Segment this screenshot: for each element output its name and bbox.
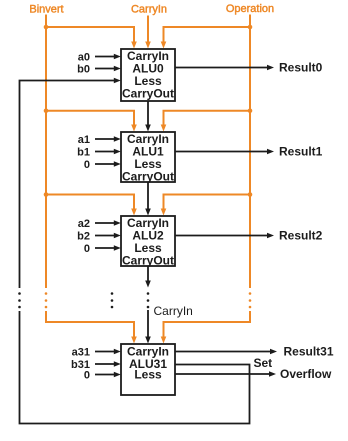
svg-text:Operation: Operation (226, 3, 274, 15)
svg-text:CarryOut: CarryOut (122, 87, 174, 101)
svg-text:a0: a0 (78, 52, 90, 64)
svg-text:0: 0 (84, 370, 90, 382)
svg-text:Binvert: Binvert (29, 4, 63, 16)
svg-text:0: 0 (84, 243, 90, 255)
svg-text:CarryIn: CarryIn (131, 4, 167, 16)
svg-text:a2: a2 (78, 218, 90, 230)
svg-text:Result0: Result0 (279, 61, 323, 75)
svg-text:Result1: Result1 (279, 145, 323, 159)
svg-text:Less: Less (134, 368, 162, 382)
svg-text:CarryIn: CarryIn (154, 304, 193, 318)
svg-text:CarryOut: CarryOut (122, 254, 174, 268)
svg-text:b1: b1 (77, 147, 90, 159)
svg-text:Result31: Result31 (284, 345, 334, 359)
svg-text:a1: a1 (78, 134, 90, 146)
svg-text:Set: Set (254, 356, 273, 370)
svg-text:Result2: Result2 (279, 229, 323, 243)
svg-text:b2: b2 (77, 231, 90, 243)
svg-text:Overflow: Overflow (280, 367, 332, 381)
svg-text:b0: b0 (77, 64, 90, 76)
svg-text:CarryOut: CarryOut (122, 170, 174, 184)
svg-text:0: 0 (84, 159, 90, 171)
svg-text:a31: a31 (72, 347, 90, 359)
